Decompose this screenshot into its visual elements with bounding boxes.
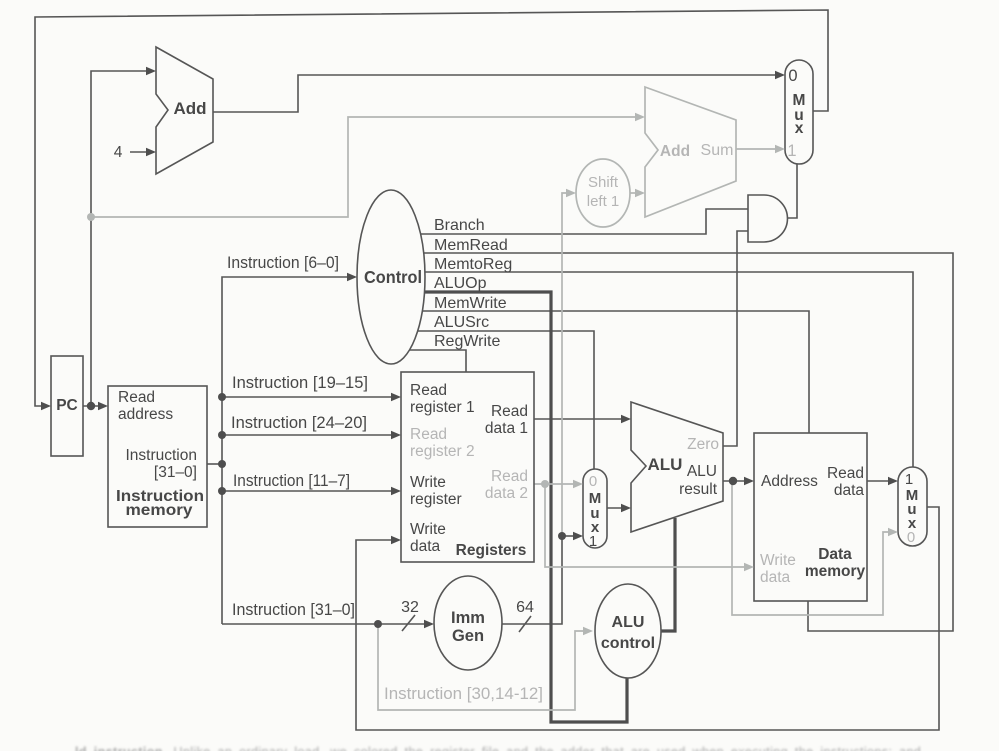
svg-text:data 2: data 2: [485, 485, 528, 502]
svg-text:Instruction [24–20]: Instruction [24–20]: [231, 414, 367, 432]
svg-text:register 2: register 2: [410, 443, 475, 460]
svg-text:data: data: [834, 482, 865, 499]
svg-text:x: x: [795, 120, 804, 137]
svg-text:control: control: [601, 635, 655, 652]
svg-text:result: result: [679, 481, 718, 498]
svg-text:left 1: left 1: [587, 193, 620, 210]
svg-text:Sum: Sum: [701, 142, 734, 159]
svg-text:ALU: ALU: [612, 614, 645, 631]
svg-text:1: 1: [787, 142, 796, 160]
svg-text:32: 32: [401, 599, 419, 616]
svg-text:data 1: data 1: [485, 420, 528, 437]
svg-text:Read: Read: [118, 389, 155, 406]
svg-text:1: 1: [905, 471, 913, 488]
svg-text:data: data: [760, 569, 791, 586]
svg-text:Shift: Shift: [588, 174, 619, 191]
svg-text:Data: Data: [818, 546, 852, 563]
svg-text:Zero: Zero: [687, 436, 719, 453]
svg-text:Instruction [19–15]: Instruction [19–15]: [232, 374, 368, 392]
svg-text:64: 64: [516, 599, 534, 616]
svg-text:Instruction [6–0]: Instruction [6–0]: [227, 254, 339, 272]
svg-text:memory: memory: [126, 502, 193, 519]
svg-text:0: 0: [788, 67, 797, 85]
svg-text:[31–0]: [31–0]: [154, 464, 197, 481]
svg-text:register 1: register 1: [410, 399, 475, 416]
svg-text:MemtoReg: MemtoReg: [434, 256, 512, 273]
svg-text:address: address: [118, 406, 173, 423]
svg-text:Write: Write: [410, 521, 446, 538]
svg-text:memory: memory: [805, 563, 866, 580]
svg-text:Read: Read: [491, 403, 528, 420]
svg-text:Registers: Registers: [456, 542, 527, 559]
svg-text:ALU: ALU: [648, 455, 683, 474]
svg-text:Instruction [11–7]: Instruction [11–7]: [233, 472, 350, 490]
svg-text:Read: Read: [410, 382, 447, 399]
svg-text:0: 0: [589, 473, 597, 490]
svg-text:Gen: Gen: [452, 627, 484, 645]
svg-text:MemWrite: MemWrite: [434, 295, 507, 312]
svg-text:0: 0: [907, 529, 915, 546]
svg-text:Imm: Imm: [451, 609, 485, 627]
svg-text:RegWrite: RegWrite: [434, 333, 500, 350]
svg-text:Add: Add: [173, 99, 206, 118]
svg-text:Instruction [31–0]: Instruction [31–0]: [232, 601, 355, 619]
svg-text:MemRead: MemRead: [434, 237, 508, 254]
svg-text:Write: Write: [410, 474, 446, 491]
svg-text:1: 1: [589, 533, 597, 550]
svg-text:register: register: [410, 491, 462, 508]
svg-text:Add: Add: [660, 143, 690, 160]
svg-text:ALUOp: ALUOp: [434, 275, 487, 292]
svg-text:ALU: ALU: [687, 463, 717, 480]
svg-text:Read: Read: [491, 468, 528, 485]
svg-text:Read: Read: [410, 426, 447, 443]
svg-text:Instruction: Instruction: [125, 447, 197, 464]
svg-text:Write: Write: [760, 552, 796, 569]
svg-text:data: data: [410, 538, 441, 555]
svg-text:Address: Address: [761, 473, 818, 490]
svg-text:Instruction [30,14-12]: Instruction [30,14-12]: [384, 685, 543, 703]
svg-text:Read: Read: [827, 465, 864, 482]
svg-text:Control: Control: [364, 267, 422, 287]
svg-text:ALUSrc: ALUSrc: [434, 314, 489, 331]
svg-text:PC: PC: [56, 397, 78, 414]
svg-text:4: 4: [114, 144, 123, 161]
svg-text:Branch: Branch: [434, 217, 485, 234]
